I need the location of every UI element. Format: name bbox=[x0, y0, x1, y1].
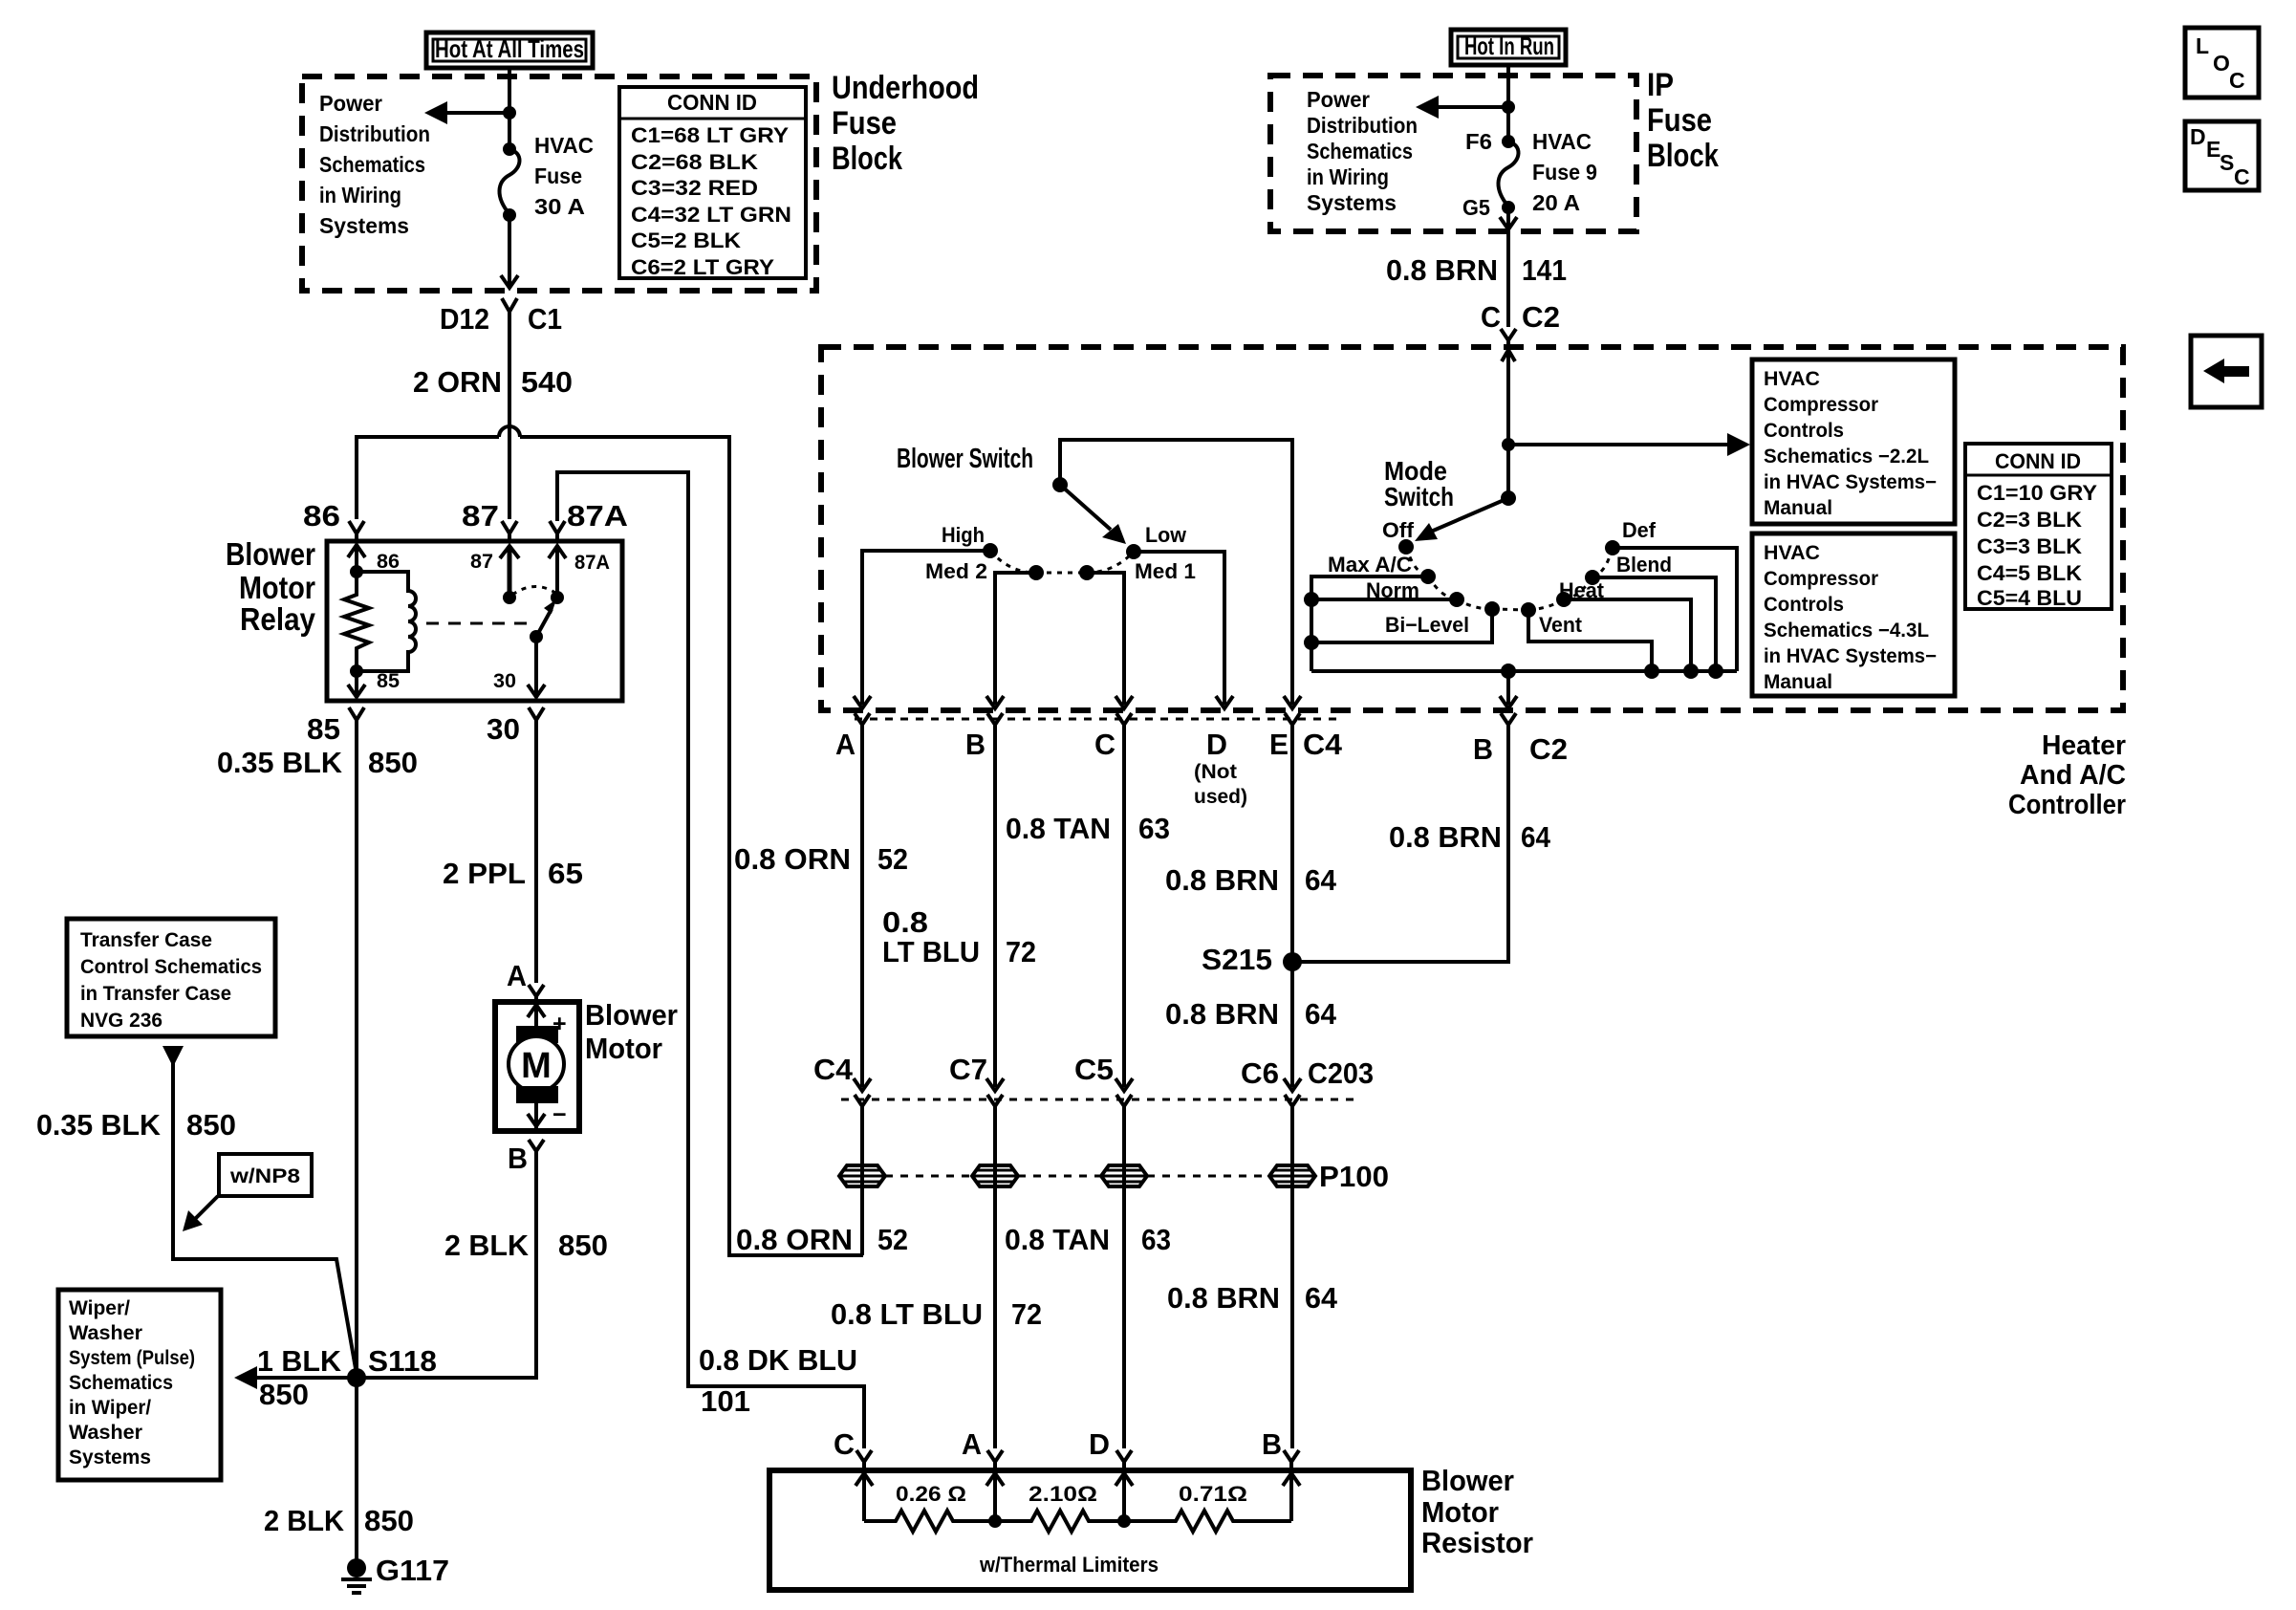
svg-text:C4=32 LT GRN: C4=32 LT GRN bbox=[631, 203, 791, 227]
svg-text:Heater: Heater bbox=[2042, 730, 2126, 761]
svg-text:0.8 TAN: 0.8 TAN bbox=[1005, 1223, 1110, 1256]
dashed contact travel arc bbox=[512, 586, 555, 595]
svg-text:S: S bbox=[2220, 150, 2234, 175]
svg-text:D: D bbox=[1206, 728, 1227, 761]
blower switch contact Low bbox=[1126, 544, 1141, 559]
svg-text:IP: IP bbox=[1647, 67, 1674, 103]
wire: 2 PPL 65 from relay 30 to blower motor A bbox=[534, 720, 538, 983]
blower motor M1 bbox=[495, 1002, 579, 1131]
svg-text:in HVAC Systems−: in HVAC Systems− bbox=[1764, 645, 1937, 667]
svg-text:Blend: Blend bbox=[1616, 553, 1672, 577]
svg-text:Bi−Level: Bi−Level bbox=[1385, 613, 1469, 637]
splice S215 dot bbox=[1283, 952, 1302, 971]
relay pin 87 internal lead (thick) with arrow bbox=[508, 548, 512, 598]
blower switch wiper arm bbox=[1060, 485, 1111, 530]
arrowhead to power distribution (IP) bbox=[1416, 96, 1439, 119]
junction dot to compressor controls branch bbox=[1502, 438, 1515, 451]
svg-text:87A: 87A bbox=[567, 499, 628, 533]
dashed travel arc blower switch bbox=[990, 551, 1134, 573]
svg-text:850: 850 bbox=[364, 1504, 414, 1537]
svg-text:2 ORN: 2 ORN bbox=[413, 365, 502, 399]
svg-text:CONN ID: CONN ID bbox=[667, 90, 757, 115]
svg-text:Def: Def bbox=[1622, 518, 1657, 542]
resistor pin D internal lead with arrow bbox=[1116, 1469, 1133, 1521]
junction dot Norm/left bus bbox=[1304, 592, 1319, 607]
arrowhead at C203 row column A bbox=[854, 1078, 871, 1091]
wire: C2 feed down to mode switch pivot bbox=[1506, 350, 1510, 498]
svg-text:Manual: Manual bbox=[1764, 497, 1832, 519]
svg-text:Systems: Systems bbox=[69, 1447, 151, 1469]
svg-text:Fuse 9: Fuse 9 bbox=[1532, 160, 1597, 185]
dashed travel arc mode switch bbox=[1406, 547, 1613, 610]
label: Blower Motor Resistor bbox=[1421, 1464, 1533, 1559]
connector V at C6/C203 bbox=[1285, 1095, 1300, 1117]
svg-text:Fuse: Fuse bbox=[1647, 102, 1712, 139]
mode switch contact Max A/C bbox=[1420, 569, 1436, 584]
Hot In Run flag box bbox=[1451, 30, 1566, 65]
svg-text:63: 63 bbox=[1141, 1223, 1171, 1256]
wire: B/C2 down to S215 bbox=[1292, 725, 1508, 962]
wire: feed horizontal to relay 86 and blower switch A column (hops over 87 wire) bbox=[357, 426, 863, 1255]
svg-text:B: B bbox=[1473, 732, 1493, 766]
wire: Med 2 to connector B bbox=[995, 573, 1036, 705]
svg-text:Hot At All Times: Hot At All Times bbox=[435, 34, 584, 63]
svg-text:Schematics −4.3L: Schematics −4.3L bbox=[1764, 620, 1929, 642]
svg-text:P100: P100 bbox=[1319, 1160, 1389, 1193]
svg-text:C2: C2 bbox=[1529, 732, 1568, 766]
svg-text:A: A bbox=[835, 728, 856, 761]
relay pin 86 internal lead with arrow bbox=[348, 545, 365, 572]
svg-text:52: 52 bbox=[877, 842, 908, 876]
connector V at relay pin 87 bbox=[502, 521, 517, 541]
svg-text:B: B bbox=[1262, 1427, 1282, 1461]
connector V at B/C2 bbox=[1501, 713, 1516, 736]
wire: column A C203 to grommet to feed corner bbox=[860, 1106, 864, 1255]
svg-text:−: − bbox=[552, 1101, 567, 1128]
arrowhead down at IP box edge bbox=[1500, 217, 1517, 229]
svg-text:64: 64 bbox=[1305, 997, 1337, 1031]
svg-text:63: 63 bbox=[1138, 812, 1170, 845]
relay pin 85 internal lead with arrow bbox=[348, 671, 365, 697]
svg-text:w/Thermal Limiters: w/Thermal Limiters bbox=[979, 1553, 1159, 1577]
svg-text:Med 1: Med 1 bbox=[1135, 559, 1196, 583]
DESC reference box bbox=[2185, 121, 2259, 190]
dashed line linking P100 grommets bbox=[885, 1175, 1269, 1178]
svg-text:Vent: Vent bbox=[1539, 613, 1583, 637]
junction dot Blend/bus bbox=[1708, 664, 1723, 679]
svg-text:72: 72 bbox=[1011, 1297, 1042, 1331]
svg-text:Switch: Switch bbox=[1384, 482, 1454, 511]
svg-text:Systems: Systems bbox=[1307, 190, 1397, 215]
wire: bus output down to connector B/C2 bbox=[1506, 671, 1510, 705]
wire: 87A to DK BLU run bbox=[557, 472, 864, 1448]
junction dot at D bbox=[1117, 1514, 1131, 1528]
svg-text:85: 85 bbox=[377, 670, 400, 692]
wire: 0.35 BLK 850 from relay 85 down to S118 bbox=[355, 720, 358, 1371]
svg-text:Resistor: Resistor bbox=[1421, 1526, 1533, 1559]
svg-text:0.8 ORN: 0.8 ORN bbox=[736, 1223, 853, 1256]
arrowhead at C203 row column B bbox=[986, 1078, 1004, 1091]
svg-text:C2=3 BLK: C2=3 BLK bbox=[1977, 508, 2082, 532]
svg-text:Motor: Motor bbox=[1421, 1495, 1499, 1529]
arrowhead down at box edge bbox=[501, 275, 518, 288]
svg-text:Systems: Systems bbox=[319, 213, 409, 238]
connector V at resistor C bbox=[856, 1450, 872, 1469]
mode switch wiper arm bbox=[1431, 498, 1508, 532]
svg-text:850: 850 bbox=[259, 1378, 309, 1411]
junction dot Vent/bus bbox=[1644, 664, 1659, 679]
svg-text:C: C bbox=[1481, 300, 1501, 334]
svg-text:Distribution: Distribution bbox=[319, 121, 430, 146]
mode switch contact Off bbox=[1398, 539, 1414, 555]
blower switch feed wire from pivot to connector E bbox=[1060, 440, 1292, 705]
svg-text:S215: S215 bbox=[1202, 943, 1272, 976]
svg-text:Transfer Case: Transfer Case bbox=[80, 929, 212, 951]
svg-text:B: B bbox=[965, 728, 986, 761]
svg-text:Wiper/: Wiper/ bbox=[69, 1297, 130, 1319]
wire: branch to power distribution (arrow left) bbox=[444, 111, 509, 115]
svg-text:C4: C4 bbox=[813, 1053, 854, 1086]
blower switch contact High bbox=[983, 543, 998, 558]
svg-text:86: 86 bbox=[377, 551, 400, 573]
label: Underhood Fuse Block bbox=[832, 70, 979, 177]
label: Blower Motor Relay bbox=[226, 536, 316, 637]
svg-text:Low: Low bbox=[1145, 523, 1187, 547]
mode switch bottom bus bbox=[1311, 669, 1737, 673]
arrowhead at controller edge pin B bbox=[986, 696, 1004, 708]
wire: Max A/C to left bus bbox=[1311, 577, 1428, 671]
svg-text:in Wiring: in Wiring bbox=[1307, 164, 1389, 189]
svg-text:Controls: Controls bbox=[1764, 594, 1844, 616]
svg-text:C203: C203 bbox=[1308, 1056, 1374, 1090]
junction dot at fuse feed bbox=[503, 106, 516, 120]
svg-text:0.26 Ω: 0.26 Ω bbox=[896, 1482, 966, 1506]
svg-text:Hot In Run: Hot In Run bbox=[1464, 32, 1554, 60]
wire: column C connector to C203 bbox=[1122, 725, 1126, 1087]
svg-text:C3=32 RED: C3=32 RED bbox=[631, 176, 758, 200]
arrowhead at controller edge pin C bbox=[1116, 696, 1133, 708]
connector V at E bbox=[1285, 713, 1300, 736]
svg-text:Washer: Washer bbox=[69, 1322, 142, 1344]
mode switch contact Blend bbox=[1585, 570, 1600, 585]
ground G117 bbox=[341, 1554, 449, 1593]
mode switch contact Def bbox=[1605, 540, 1620, 555]
connector V at C5/C203 bbox=[1116, 1095, 1132, 1117]
svg-text:85: 85 bbox=[307, 712, 340, 746]
Underhood Fuse Block dashed box bbox=[302, 76, 816, 291]
connector V at resistor D bbox=[1116, 1450, 1132, 1469]
wire: column B connector to C203 bbox=[993, 725, 997, 1087]
svg-text:Fuse: Fuse bbox=[534, 163, 582, 188]
svg-text:And A/C: And A/C bbox=[2020, 760, 2126, 791]
label: Heater And A/C Controller bbox=[2008, 730, 2126, 820]
svg-text:2 BLK: 2 BLK bbox=[264, 1504, 345, 1537]
svg-text:C5=4 BLU: C5=4 BLU bbox=[1977, 586, 2082, 610]
svg-text:High: High bbox=[942, 523, 985, 547]
svg-text:101: 101 bbox=[701, 1384, 750, 1418]
wire: Vent to bottom bus bbox=[1528, 610, 1652, 671]
resistor element 0.26 ohm C-A bbox=[864, 1511, 995, 1532]
label: Mode Switch bbox=[1384, 456, 1454, 511]
svg-text:M: M bbox=[521, 1046, 552, 1086]
svg-text:0.8 BRN: 0.8 BRN bbox=[1165, 863, 1279, 897]
resistor pin A internal lead with arrow bbox=[986, 1469, 1004, 1521]
connector V at A bbox=[855, 713, 870, 736]
svg-text:C7: C7 bbox=[949, 1053, 987, 1086]
relay contact dot 87A bbox=[551, 591, 564, 604]
arrowhead left toward wiper/washer box bbox=[234, 1366, 257, 1389]
arrowhead at C203 row column E bbox=[1284, 1078, 1301, 1091]
arrowhead at controller edge pin B/C2 bbox=[1500, 696, 1517, 708]
label: IP Fuse Block bbox=[1647, 67, 1719, 174]
svg-text:0.8 LT BLU: 0.8 LT BLU bbox=[831, 1297, 983, 1331]
junction dot Bi-Level/left bus bbox=[1304, 635, 1319, 650]
junction dot top (86 node) bbox=[350, 565, 363, 578]
svg-text:F6: F6 bbox=[1465, 129, 1492, 154]
svg-text:2 BLK: 2 BLK bbox=[444, 1229, 530, 1262]
wire: Bi-Level to left bus bbox=[1311, 609, 1492, 642]
svg-text:141: 141 bbox=[1522, 253, 1567, 287]
svg-text:Med 2: Med 2 bbox=[925, 559, 987, 583]
svg-text:Control Schematics: Control Schematics bbox=[80, 956, 262, 978]
resistor pin C internal lead with arrow bbox=[856, 1469, 873, 1521]
svg-text:S118: S118 bbox=[368, 1344, 437, 1378]
svg-text:C1=68 LT GRY: C1=68 LT GRY bbox=[631, 123, 789, 147]
connector D12/C1 below fuse block bbox=[440, 298, 562, 336]
svg-text:52: 52 bbox=[877, 1223, 908, 1256]
svg-text:850: 850 bbox=[368, 746, 418, 779]
svg-text:C4=5 BLK: C4=5 BLK bbox=[1977, 561, 2082, 585]
svg-text:used): used) bbox=[1194, 786, 1247, 808]
svg-text:A: A bbox=[962, 1427, 982, 1461]
svg-text:Controller: Controller bbox=[2008, 790, 2126, 820]
mode switch contact Heat bbox=[1556, 592, 1571, 607]
svg-text:in HVAC Systems−: in HVAC Systems− bbox=[1764, 471, 1937, 493]
HVAC Compressor Controls 4.3L callout box bbox=[1752, 533, 1955, 696]
svg-text:87: 87 bbox=[470, 551, 493, 573]
resistor pin B internal lead with arrow bbox=[1283, 1469, 1300, 1521]
Wiper/Washer System callout box bbox=[58, 1290, 221, 1480]
svg-text:C6=2 LT GRY: C6=2 LT GRY bbox=[631, 255, 774, 279]
wire: branch to power distribution (IP) bbox=[1436, 105, 1508, 109]
svg-text:Compressor: Compressor bbox=[1764, 394, 1878, 416]
svg-text:Relay: Relay bbox=[240, 601, 316, 637]
relay K box bbox=[327, 541, 622, 701]
junction dot output/bus bbox=[1501, 664, 1516, 679]
svg-text:Blower: Blower bbox=[1421, 1464, 1514, 1497]
svg-text:D12: D12 bbox=[440, 302, 489, 336]
wire: 0.35 BLK 850 transfer case branch to S118 bbox=[173, 1063, 357, 1374]
thin dashed connector line C203 row bbox=[841, 1099, 1357, 1101]
mode switch pivot dot bbox=[1501, 490, 1516, 506]
svg-text:E: E bbox=[1269, 728, 1289, 761]
arrowhead at controller edge pin D bbox=[1216, 696, 1233, 708]
svg-text:30 A: 30 A bbox=[534, 194, 585, 219]
svg-text:2.10Ω: 2.10Ω bbox=[1029, 1482, 1097, 1506]
blower switch contact Med 2 bbox=[1029, 565, 1044, 580]
svg-text:w/NP8: w/NP8 bbox=[229, 1165, 301, 1187]
svg-text:System (Pulse): System (Pulse) bbox=[69, 1347, 195, 1369]
junction dot at A bbox=[988, 1514, 1002, 1528]
svg-text:Motor: Motor bbox=[585, 1032, 662, 1065]
svg-text:C2: C2 bbox=[1522, 300, 1560, 334]
arrowhead down from transfer case box bbox=[162, 1046, 184, 1067]
fuse F6/G5 HVAC Fuse 9 20A bbox=[1462, 129, 1597, 220]
wire: 0.8 BRN 141 from IP fuse to heater A/C controller bbox=[1506, 229, 1510, 327]
resistor element 2.10 ohm A-D bbox=[995, 1511, 1124, 1532]
blower switch pivot dot bbox=[1052, 477, 1068, 492]
svg-text:86: 86 bbox=[303, 499, 340, 533]
svg-text:Blower Switch: Blower Switch bbox=[897, 444, 1033, 474]
connector V at B bbox=[987, 713, 1003, 736]
Hot At All Times flag box bbox=[426, 33, 593, 68]
svg-text:1 BLK: 1 BLK bbox=[257, 1344, 342, 1378]
wire: column B C203 to resistor A bbox=[993, 1106, 997, 1448]
svg-text:Manual: Manual bbox=[1764, 671, 1832, 693]
connector V at relay pin 85 (below) bbox=[349, 707, 364, 729]
svg-text:C5: C5 bbox=[1074, 1053, 1114, 1086]
wire: Blend to bottom bus bbox=[1592, 577, 1716, 671]
svg-text:HVAC: HVAC bbox=[1764, 368, 1820, 390]
svg-text:D: D bbox=[2190, 124, 2206, 149]
svg-text:Distribution: Distribution bbox=[1307, 113, 1418, 138]
grommet P100 at column B bbox=[972, 1165, 1018, 1186]
Transfer Case Control Schematics callout box bbox=[67, 919, 275, 1036]
svg-text:Underhood: Underhood bbox=[832, 70, 979, 106]
resistor element 0.71 ohm D-B bbox=[1124, 1511, 1291, 1532]
blower switch contact Med 1 bbox=[1079, 565, 1094, 580]
svg-text:0.8 TAN: 0.8 TAN bbox=[1006, 812, 1111, 845]
svg-text:Power: Power bbox=[319, 91, 382, 116]
relay coil bbox=[357, 572, 416, 671]
svg-text:64: 64 bbox=[1305, 863, 1337, 897]
svg-text:Schematics: Schematics bbox=[319, 152, 425, 177]
svg-text:30: 30 bbox=[487, 712, 520, 746]
wire: fuse to box edge bbox=[508, 215, 511, 286]
svg-text:NVG 236: NVG 236 bbox=[80, 1010, 162, 1032]
splice S118 bbox=[347, 1368, 366, 1387]
fuse F HVAC Fuse 30A: element symbol bbox=[499, 133, 594, 222]
connector V at C7/C203 bbox=[987, 1095, 1003, 1117]
svg-text:C1: C1 bbox=[528, 302, 562, 336]
svg-text:2 PPL: 2 PPL bbox=[443, 857, 526, 890]
mode switch contact Vent bbox=[1521, 602, 1536, 618]
svg-text:0.71Ω: 0.71Ω bbox=[1179, 1482, 1247, 1506]
svg-text:B: B bbox=[508, 1142, 528, 1175]
svg-text:C5=2 BLK: C5=2 BLK bbox=[631, 228, 741, 252]
IP Fuse Block dashed box bbox=[1270, 76, 1636, 231]
svg-text:72: 72 bbox=[1006, 935, 1036, 968]
svg-text:D: D bbox=[1089, 1427, 1110, 1461]
svg-text:540: 540 bbox=[521, 365, 573, 399]
svg-text:Blower: Blower bbox=[226, 536, 315, 572]
back arrow box bbox=[2191, 336, 2262, 407]
svg-text:Controls: Controls bbox=[1764, 420, 1844, 442]
relay contact dot 87 bbox=[503, 591, 516, 604]
wire: Def to bottom bus bbox=[1613, 548, 1737, 671]
HVAC Compressor Controls 2.2L callout box bbox=[1752, 359, 1955, 524]
wire: branch to HVAC compressor controls 2.2L bbox=[1508, 443, 1730, 446]
svg-text:64: 64 bbox=[1521, 820, 1551, 854]
svg-text:0.8 BRN: 0.8 BRN bbox=[1386, 253, 1498, 287]
svg-text:30: 30 bbox=[493, 670, 516, 692]
svg-text:Schematics −2.2L: Schematics −2.2L bbox=[1764, 446, 1929, 468]
svg-text:Block: Block bbox=[832, 141, 902, 177]
wire: feed from Hot In Run into IP fuse block bbox=[1506, 65, 1510, 140]
wire: Heat to bottom bus bbox=[1564, 599, 1691, 671]
note: Power Distribution Schematics in Wiring Systems bbox=[319, 91, 430, 238]
svg-text:(Not: (Not bbox=[1194, 761, 1237, 783]
svg-text:0.8 BRN: 0.8 BRN bbox=[1167, 1281, 1280, 1315]
svg-text:C4: C4 bbox=[1303, 728, 1343, 761]
connector C/C2 at controller bbox=[1481, 300, 1560, 346]
svg-text:L: L bbox=[2196, 33, 2209, 58]
arrow from w/NP8 to wire bbox=[194, 1196, 218, 1220]
svg-text:Compressor: Compressor bbox=[1764, 568, 1878, 590]
svg-text:20 A: 20 A bbox=[1532, 190, 1580, 215]
wire: feed from Hot At All Times into fuse block bbox=[508, 68, 511, 145]
connector V at C4/C203 bbox=[855, 1095, 870, 1117]
relay movable arm with arrowhead toward 87A bbox=[536, 609, 552, 637]
svg-text:87: 87 bbox=[462, 499, 499, 533]
svg-text:in Wiring: in Wiring bbox=[319, 183, 401, 207]
svg-text:HVAC: HVAC bbox=[1532, 129, 1592, 154]
connector V at motor A bbox=[529, 985, 544, 1002]
svg-text:C: C bbox=[2234, 164, 2250, 189]
svg-text:0.8 BRN: 0.8 BRN bbox=[1165, 997, 1279, 1031]
grommet P100 at column E bbox=[1269, 1165, 1315, 1186]
svg-text:G117: G117 bbox=[376, 1554, 449, 1587]
CONN ID table (underhood) bbox=[619, 87, 806, 279]
svg-text:87A: 87A bbox=[574, 552, 610, 574]
svg-text:0.8 DK BLU: 0.8 DK BLU bbox=[699, 1343, 857, 1377]
svg-text:Block: Block bbox=[1647, 138, 1719, 174]
wire: 1 BLK 850 to wiper/washer systems bbox=[255, 1376, 357, 1380]
connector V at resistor A bbox=[987, 1450, 1003, 1469]
wire: column E C203 to resistor B bbox=[1290, 1106, 1294, 1448]
thin dashed connector line C4 row bbox=[855, 718, 1338, 721]
svg-text:G5: G5 bbox=[1462, 195, 1490, 220]
arrowhead right into HVAC compressor box bbox=[1727, 433, 1750, 456]
junction dot at IP fuse feed bbox=[1502, 100, 1515, 114]
wire: Norm to left bus bbox=[1311, 598, 1457, 601]
svg-text:Off: Off bbox=[1382, 518, 1415, 542]
connector V at relay pin 30 (below) bbox=[529, 707, 544, 729]
wire: High to connector A bbox=[862, 551, 990, 705]
svg-text:0.35 BLK: 0.35 BLK bbox=[36, 1108, 162, 1142]
junction dot bottom (85 node) bbox=[350, 664, 363, 678]
junction dot Heat/bus bbox=[1683, 664, 1699, 679]
LOC reference box bbox=[2185, 28, 2259, 98]
svg-text:C2=68 BLK: C2=68 BLK bbox=[631, 150, 758, 174]
svg-text:850: 850 bbox=[186, 1108, 236, 1142]
svg-text:C: C bbox=[2229, 68, 2245, 93]
svg-text:0.8 ORN: 0.8 ORN bbox=[734, 842, 851, 876]
wire: Low to connector D bbox=[1134, 552, 1224, 705]
svg-text:in Transfer Case: in Transfer Case bbox=[80, 983, 231, 1005]
svg-text:HVAC: HVAC bbox=[1764, 542, 1820, 564]
svg-text:Schematics: Schematics bbox=[69, 1372, 173, 1394]
svg-text:C6: C6 bbox=[1241, 1056, 1279, 1090]
CONN ID table (controller) bbox=[1965, 444, 2112, 610]
svg-text:65: 65 bbox=[548, 857, 583, 890]
wire: 2 BLK 850 S118 to G117 bbox=[355, 1378, 358, 1568]
wire: 2 ORN 540 from C1 to relay pin 87 bbox=[508, 325, 511, 519]
connector V at relay pin 87A bbox=[550, 521, 565, 541]
grommet P100 at column C bbox=[1101, 1165, 1147, 1186]
svg-text:C: C bbox=[1094, 728, 1116, 761]
arrowhead at controller edge pin A bbox=[854, 696, 871, 708]
